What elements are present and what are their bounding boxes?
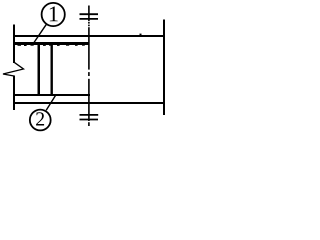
left vertical edge (upper part) (13, 25, 15, 64)
leader line of balloon 2 (46, 96, 55, 111)
bottom flange upper line (13, 94, 90, 96)
bottom flange lower line (13, 102, 165, 104)
centre line (dash-dot vertical) (88, 6, 90, 127)
left vertical edge (lower part) (13, 76, 15, 111)
stiffener line C (51, 45, 53, 94)
right vertical edge (163, 20, 165, 116)
leader line of balloon 1 (34, 25, 46, 43)
ragged weld specks under thick line (18, 45, 85, 46)
callout balloon 1 (42, 3, 65, 26)
stiffener line B (38, 45, 41, 94)
top tick mark 1 (80, 13, 99, 15)
break (zigzag) in left vertical edge (3, 62, 24, 76)
callout balloon 2 (30, 110, 51, 131)
top flange top line (13, 35, 165, 37)
bottom tick mark 2 (80, 119, 99, 121)
bottom tick mark 1 (80, 114, 99, 116)
top tick mark 2 (80, 18, 99, 20)
top flange thick (weld) line (15, 42, 89, 45)
speck above top line (140, 34, 142, 35)
